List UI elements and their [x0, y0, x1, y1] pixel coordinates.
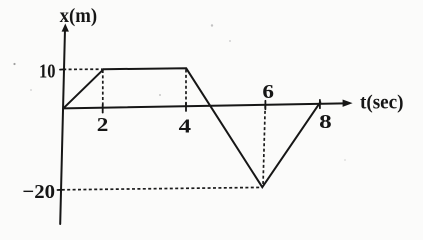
svg-text:−20: −20	[22, 181, 55, 203]
svg-text:2: 2	[97, 114, 109, 136]
svg-text:x(m): x(m)	[60, 5, 98, 27]
svg-text:10: 10	[39, 60, 55, 82]
svg-text:6: 6	[262, 81, 274, 103]
svg-text:4: 4	[179, 115, 191, 137]
svg-text:8: 8	[319, 111, 332, 133]
svg-text:t(sec): t(sec)	[360, 92, 404, 114]
